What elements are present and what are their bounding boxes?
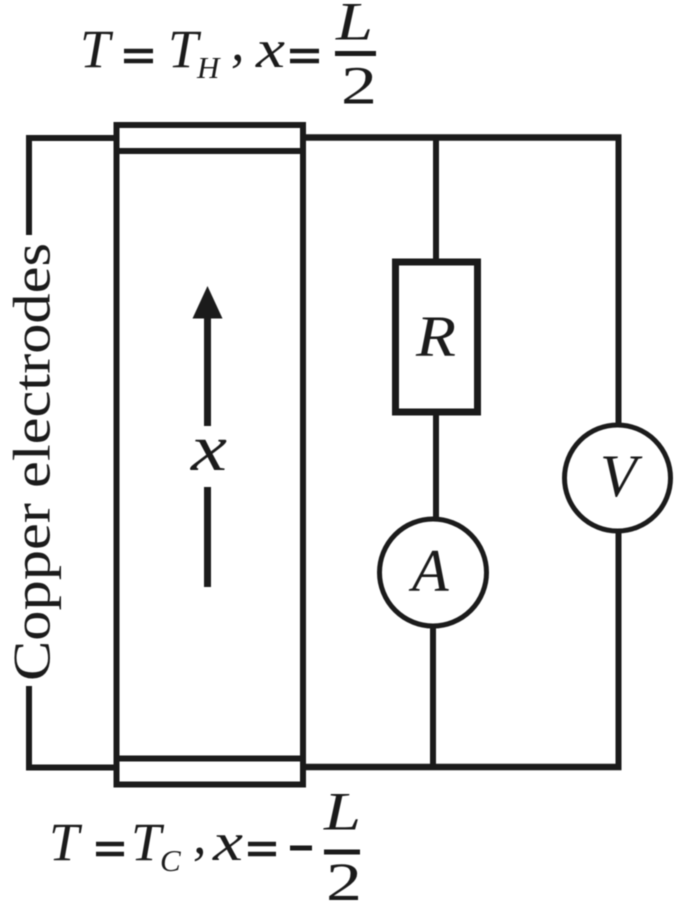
svg-text:2: 2	[326, 852, 362, 911]
svg-text:R: R	[415, 304, 456, 369]
bottom temperature label: T = T_C , x = -L/2	[49, 782, 362, 911]
svg-text:x: x	[212, 812, 243, 872]
wire: resistor to ammeter	[433, 412, 439, 520]
wire: ammeter to bottom rail	[430, 626, 436, 769]
svg-text:x: x	[255, 19, 285, 79]
resistor R (box)	[396, 262, 478, 412]
wire: top electrode to left rail	[29, 138, 119, 235]
wire: left rail lower segment to bottom electrode	[26, 686, 119, 768]
ammeter A (circle)	[380, 519, 487, 626]
wire: right rail lower segment (voltmeter to bottom rail)	[616, 530, 622, 769]
wire: top rail from electrode to right rail	[303, 134, 622, 141]
svg-text:A: A	[408, 538, 449, 604]
svg-text:C: C	[160, 843, 181, 878]
arrow: x-axis lower shaft	[204, 487, 211, 587]
wire: right rail upper segment (top rail to voltmeter)	[616, 135, 622, 427]
svg-text:L: L	[335, 0, 373, 52]
svg-text:H: H	[196, 50, 221, 85]
svg-text:T: T	[80, 19, 114, 79]
bottom copper electrode (top line of thin strip)	[114, 756, 306, 762]
sample body (thermoelectric element outline)	[117, 125, 304, 785]
wire: branch from top rail down to resistor	[433, 135, 439, 263]
svg-text:,: ,	[231, 12, 245, 72]
svg-text:,: ,	[193, 805, 207, 865]
arrow: x-axis direction, upper shaft with head	[193, 286, 223, 319]
svg-text:T: T	[49, 812, 83, 872]
top copper electrode (bottom line of thin strip)	[114, 148, 306, 154]
svg-text:2: 2	[341, 56, 377, 116]
svg-text:V: V	[600, 443, 643, 509]
wire: bottom rail from electrode to right rail	[303, 764, 622, 771]
svg-text:Copper electrodes: Copper electrodes	[4, 243, 62, 681]
voltmeter V (circle)	[565, 425, 671, 531]
svg-text:x: x	[190, 412, 227, 485]
svg-text:L: L	[323, 782, 361, 842]
top temperature label: T = T_H , x = L/2	[80, 0, 377, 116]
